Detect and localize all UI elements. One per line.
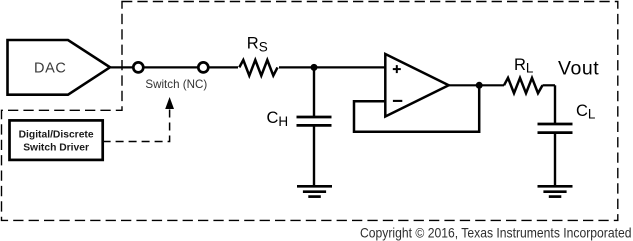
svg-text:Switch Driver: Switch Driver — [23, 142, 89, 153]
svg-text:Vout: Vout — [558, 58, 599, 80]
svg-text:Digital/Discrete: Digital/Discrete — [19, 130, 94, 141]
svg-text:Switch (NC): Switch (NC) — [145, 78, 207, 91]
svg-text:DAC: DAC — [34, 60, 66, 76]
svg-text:Copyright © 2016, Texas Instru: Copyright © 2016, Texas Instruments Inco… — [360, 225, 632, 241]
